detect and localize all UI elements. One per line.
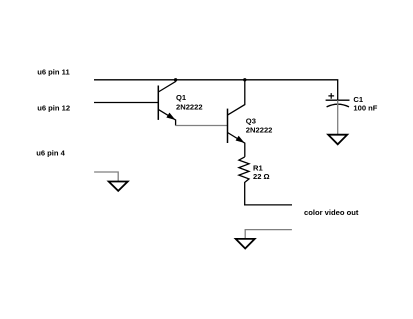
- ground (C1): [328, 135, 347, 145]
- svg-text:2N2222: 2N2222: [246, 125, 273, 134]
- transistor Q1: [158, 80, 175, 126]
- ground (output): [236, 239, 255, 249]
- svg-text:color video out: color video out: [304, 208, 359, 217]
- svg-text:u6 pin 12: u6 pin 12: [37, 104, 70, 113]
- svg-text:C1: C1: [353, 95, 363, 104]
- ground (u6 pin 4): [109, 182, 128, 191]
- svg-text:u6 pin 4: u6 pin 4: [36, 149, 65, 158]
- svg-text:22 Ω: 22 Ω: [253, 172, 270, 181]
- junction dot at Q3 collector / top rail: [243, 78, 246, 81]
- wire: R1 bottom to color video out: [244, 204, 292, 206]
- capacitor C1 plus sign: [328, 93, 334, 99]
- svg-text:u6 pin 11: u6 pin 11: [37, 68, 70, 77]
- transistor Q3: [228, 80, 245, 157]
- capacitor C1 top plate: [326, 99, 350, 101]
- wire: C1 to ground (gray): [337, 100, 339, 135]
- svg-text:Q3: Q3: [246, 116, 256, 125]
- wire: u6 pin 12 to Q1 base: [94, 102, 158, 104]
- svg-text:2N2222: 2N2222: [176, 103, 203, 112]
- svg-text:Q1: Q1: [176, 93, 187, 102]
- resistor R1: [239, 157, 249, 205]
- svg-text:100 nF: 100 nF: [353, 104, 377, 113]
- wire: u6 pin 4 to ground (gray): [94, 172, 118, 182]
- wire: output return to ground (gray): [245, 230, 292, 239]
- wire: Q1 emitter to Q3 base (gray): [176, 125, 228, 127]
- capacitor C1 bottom curved plate: [327, 104, 349, 107]
- junction dot at Q1 collector / top rail: [174, 78, 177, 81]
- wire: top rail from u6 pin 11 to C1: [94, 80, 338, 100]
